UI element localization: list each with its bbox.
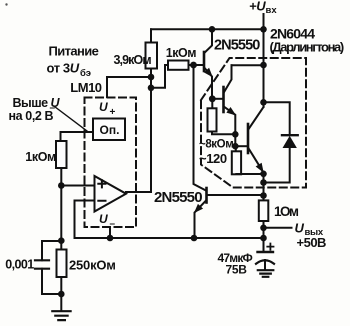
- node Q4 base junction: [260, 192, 267, 199]
- label U-: [99, 212, 116, 230]
- Darlington dashed box: [201, 58, 306, 188]
- text LM10: [70, 80, 102, 95]
- wire 3.9k bottom lead down to op-amp output: [150, 69, 152, 193]
- node +input: [58, 182, 65, 189]
- node Darlington base: [209, 95, 216, 102]
- text Питание от 3Uбэ: [47, 44, 99, 79]
- svg-text:вх: вх: [266, 5, 278, 16]
- svg-text:на 0,2 В: на 0,2 В: [9, 109, 54, 123]
- text Выше U- на 0,2В: [9, 96, 61, 123]
- reference block Оп.: [93, 119, 125, 141]
- ground right: [258, 270, 274, 277]
- capacitor C1 0,001: [35, 260, 49, 268]
- svg-text:LM10: LM10: [70, 80, 102, 95]
- op-amp U1 LM10 triangle: [95, 176, 127, 212]
- text 2N5550 bottom: [154, 189, 202, 206]
- transistor Q1 2N5550: [203, 52, 206, 71]
- svg-text:(Дарлингтона): (Дарлингтона): [270, 40, 344, 55]
- wire output emitter node: [263, 173, 265, 200]
- transistor QB (Darlington output): [247, 124, 250, 153]
- node +Uвх label: [249, 0, 277, 16]
- scan speck: [5, 3, 7, 5]
- resistor R7 1Ом: [259, 200, 269, 221]
- svg-text:бэ: бэ: [80, 68, 91, 79]
- svg-text:2N5550: 2N5550: [154, 189, 202, 206]
- resistor R1 3,9кОм: [146, 43, 158, 69]
- wire op-amp output: [126, 191, 151, 193]
- resistor R2 1кОм horizontal: [168, 61, 189, 70]
- node Q1 base: [190, 62, 197, 69]
- resistor R6 ~120: [235, 146, 237, 151]
- label 2N6044 (Дарлингтона): [270, 26, 344, 55]
- node Q4 emitter rail: [191, 235, 198, 242]
- wire U+ tap: [107, 77, 151, 97]
- capacitor C2 47мкФ 75В: [267, 244, 273, 250]
- svg-text:U: U: [99, 212, 108, 226]
- svg-text:3,9кОм: 3,9кОм: [114, 53, 152, 67]
- wire noninverting input: [61, 185, 94, 187]
- svg-text:75В: 75В: [226, 263, 248, 277]
- pointer line: [55, 107, 88, 132]
- wire cap tap: [42, 241, 61, 260]
- node U- rail: [107, 235, 114, 242]
- wire Darlington base node: [212, 98, 222, 100]
- wire QA collector to supply: [232, 64, 264, 66]
- wire Q4 base to output node: [208, 194, 264, 196]
- resistor R5 8кОм: [211, 99, 213, 109]
- ground left: [52, 311, 70, 320]
- wire divider vertical: [60, 168, 62, 250]
- svg-text:1Ом: 1Ом: [274, 204, 299, 219]
- node Uвых: [260, 225, 267, 232]
- resistor R4 250кОм: [57, 250, 67, 278]
- svg-text:1кОм: 1кОм: [25, 150, 56, 164]
- wire cap bottom: [42, 269, 61, 294]
- wire +Uвх drop: [263, 14, 265, 29]
- wire main supply vertical: [263, 29, 265, 107]
- node cap bottom: [58, 291, 65, 298]
- node 3.9k/1k: [148, 85, 155, 92]
- node cap tap: [58, 237, 65, 244]
- LM10 dashed box: [85, 98, 137, 228]
- svg-text:+U: +U: [249, 0, 266, 14]
- node QB base: [232, 143, 239, 150]
- wire QA emitter to QB base: [234, 134, 236, 146]
- node QA emitter/8k: [232, 131, 239, 138]
- transistor QA (Darlington driver): [222, 87, 225, 112]
- wire feedback rail: [75, 237, 264, 239]
- svg-text:1кОм: 1кОм: [166, 46, 196, 60]
- svg-text:~120: ~120: [199, 151, 227, 166]
- node supply/diode: [260, 99, 267, 106]
- svg-text:250кОм: 250кОм: [69, 257, 116, 272]
- node feedback/output: [260, 235, 267, 242]
- node QB emitter/120: [260, 171, 267, 178]
- node diode return: [260, 179, 267, 186]
- wire inverting input + feedback drop: [75, 201, 95, 239]
- diode D1: [282, 134, 298, 136]
- wire U- pin drop: [109, 227, 111, 238]
- svg-text:~8кОм: ~8кОм: [199, 139, 233, 151]
- svg-text:Оп.: Оп.: [100, 123, 120, 137]
- node rail-supply: [260, 26, 267, 33]
- wire output to cap: [263, 221, 265, 252]
- svg-text:+: +: [110, 107, 116, 118]
- svg-text:Питание: Питание: [49, 44, 99, 59]
- label U+: [99, 100, 116, 118]
- svg-text:U: U: [295, 221, 305, 236]
- wire diode top branch: [264, 102, 290, 135]
- node rail-Q1: [209, 26, 216, 33]
- wire 250k bottom: [60, 277, 62, 311]
- wire QB base: [235, 145, 247, 147]
- svg-text:U: U: [99, 100, 108, 114]
- label Uвых +50В: [295, 221, 327, 251]
- resistor R3 1кОм left: [56, 141, 67, 168]
- wire 1кОм left lead: [151, 65, 168, 88]
- wire reference to divider: [61, 132, 94, 141]
- wire Uвых tap: [264, 227, 292, 229]
- wire 3.9k top lead: [150, 29, 152, 42]
- node 3.9k/U+: [148, 74, 155, 81]
- svg-text:0,001: 0,001: [5, 258, 34, 272]
- wire top rail: [151, 28, 264, 30]
- svg-text:от 3U: от 3U: [47, 61, 80, 76]
- svg-text:+50В: +50В: [297, 235, 327, 250]
- node supply/QA collector: [260, 62, 267, 69]
- svg-text:2N5550: 2N5550: [214, 38, 260, 54]
- transistor Q4 2N5550: [205, 188, 208, 203]
- wire 120 bottom to emitter rail: [236, 173, 263, 175]
- wire 1кОм right lead: [189, 64, 203, 66]
